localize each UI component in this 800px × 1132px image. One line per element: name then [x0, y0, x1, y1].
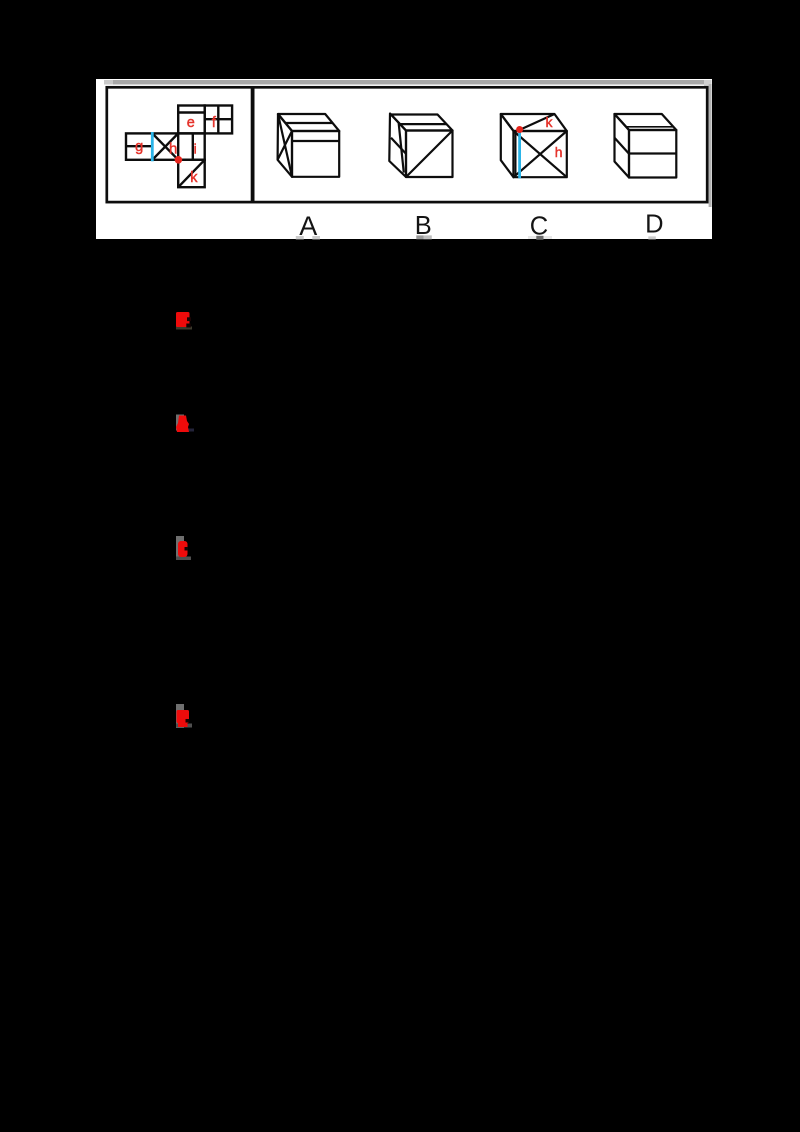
cube B left face horizontal line: [391, 138, 406, 154]
white figure block: [96, 79, 712, 239]
cube D top face: [615, 114, 677, 130]
cube A top strip line: [285, 122, 332, 124]
panel divider: [251, 87, 255, 203]
net X square diagonal 2: [152, 133, 178, 159]
net square e strip line: [178, 111, 205, 113]
svg-text:k: k: [546, 114, 554, 130]
net square f vertical line: [217, 106, 219, 134]
net square i vertical line: [192, 133, 194, 159]
net middle row outline: [126, 133, 205, 159]
smudge under B light part: [424, 235, 432, 239]
grey top-right corner block: [704, 80, 712, 89]
cube C front face: [514, 131, 567, 177]
cube A front face: [292, 131, 339, 177]
cube A top face: [278, 114, 339, 131]
svg-text:k: k: [190, 170, 198, 186]
answer mark 3 underline: [176, 557, 191, 561]
cube B top strip line: [400, 123, 447, 125]
answer mark 2 underline: [182, 429, 194, 432]
cube A left face: [278, 114, 292, 177]
svg-text:i: i: [194, 140, 197, 156]
cube C top face: [501, 114, 567, 131]
cube C front X diagonal 1: [514, 131, 567, 177]
answer mark 3 grey bar: [176, 536, 184, 558]
grey top band: [104, 80, 711, 85]
outer box: [107, 87, 707, 202]
svg-text:h: h: [555, 144, 563, 160]
smudge under D: [648, 236, 656, 239]
answer mark 1 red glyph: [176, 312, 190, 327]
svg-text:h: h: [169, 141, 177, 158]
cube D top strip line: [626, 126, 673, 128]
grey right strip: [709, 84, 712, 207]
answer mark 4 underline: [176, 724, 192, 728]
net blue edge: [151, 132, 154, 161]
smudge under B dark part: [416, 235, 423, 239]
svg-text:g: g: [135, 138, 143, 155]
svg-text:e: e: [187, 115, 195, 131]
answer mark 2 red glyph: [176, 416, 189, 433]
cube B left face: [389, 114, 406, 178]
net red dot: [175, 156, 183, 164]
cube B top face: [391, 115, 453, 131]
answer mark 2 grey bar: [176, 415, 184, 431]
smudge under A right foot: [312, 236, 320, 239]
net square f outline: [205, 106, 232, 134]
cube C front X diagonal 2: [514, 131, 567, 177]
grey top band light start: [104, 80, 113, 85]
answer mark 1 underline: [176, 327, 192, 330]
answer mark 4 red glyph: [177, 710, 190, 727]
smudge under C light band: [528, 236, 552, 239]
cube C top diagonal: [520, 114, 555, 130]
net square g mid line: [126, 145, 151, 147]
cube D front face: [629, 130, 676, 178]
answer mark 4 grey bar: [176, 704, 184, 728]
net square f horizontal line: [205, 118, 232, 120]
cube C front-left edge inner line: [515, 131, 517, 177]
svg-text:D: D: [645, 211, 663, 239]
cube D left face: [615, 114, 630, 178]
net X square right edge: [177, 133, 179, 159]
cube C red dot: [516, 126, 523, 133]
cube B left face vertical line: [399, 122, 404, 172]
cube B front diagonal: [406, 131, 453, 178]
cube C cyan edge line: [518, 130, 521, 178]
net square e outline: [178, 106, 205, 134]
cube A left face X diagonal 1: [278, 131, 292, 160]
smudge under A left foot: [296, 236, 304, 239]
cube B front face: [406, 131, 453, 178]
cube A front strip line: [292, 140, 339, 142]
smudge under C dark block: [536, 236, 543, 240]
cube C left face: [501, 114, 514, 177]
net red labels: [135, 114, 217, 186]
net square k diagonal: [178, 160, 205, 187]
cube D front mid line: [629, 152, 676, 154]
net X square diagonal 1: [152, 133, 178, 159]
cube A left face X diagonal 2: [278, 114, 292, 177]
cube D left face mid line: [615, 138, 630, 154]
net square k outline: [178, 160, 205, 187]
answer mark 3 red glyph: [178, 541, 188, 557]
